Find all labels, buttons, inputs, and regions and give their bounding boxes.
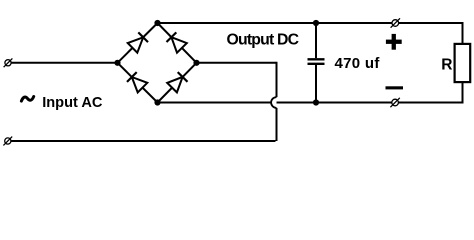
diode top-right (anode right node, cathode top node) [171,37,186,53]
capacitor C bottom lead [315,65,317,103]
wire: AC return horizontal from bridge right node [197,62,277,64]
diode bottom-right (anode bottom node, cathode right node) [167,77,182,93]
wire: AC return vertical upper segment [276,62,278,97]
wire: DC- bottom rail and right edge [158,82,463,103]
node: capacitor bottom junction [313,99,319,105]
polarity marker + [386,34,402,50]
wire: bridge side right-top [158,23,197,63]
resistor R [455,44,471,82]
wire: bridge side bottom-right [158,63,197,103]
capacitor C bottom plate [308,63,325,65]
label: ~ (AC tilde symbol) [21,97,33,102]
wire: bridge side left-top [118,23,158,63]
node: bridge left junction [114,60,120,66]
diode bottom-left (anode bottom node, cathode left node) [132,77,148,92]
wire hop: white mask over DC- rail [271,97,276,108]
capacitor C top lead [315,23,317,58]
svg-text:R: R [441,57,452,74]
node: capacitor top junction [313,20,319,26]
wire: AC return vertical lower segment [276,108,278,141]
terminal: AC input top [4,58,13,67]
node: bridge top junction [154,20,160,26]
terminal: DC output + [391,18,400,27]
capacitor C top plate [308,58,325,60]
wire: AC return bottom horizontal [11,140,276,142]
wire hop: crossover arc [271,97,276,108]
diode top-left (anode left node, cathode top node) [128,37,144,52]
node: bridge right junction [193,60,199,66]
svg-text:Input AC: Input AC [42,95,103,111]
wire: AC input top horizontal [11,62,118,64]
svg-text:Output DC: Output DC [227,32,299,49]
terminal: DC output - [390,98,399,107]
polarity marker - [386,86,404,89]
wire: bridge side bottom-left [118,63,158,103]
node: bridge bottom junction [154,99,160,105]
svg-text:470 uf: 470 uf [335,55,381,72]
terminal: AC input bottom [3,137,12,146]
wire: DC+ top rail [158,23,463,44]
